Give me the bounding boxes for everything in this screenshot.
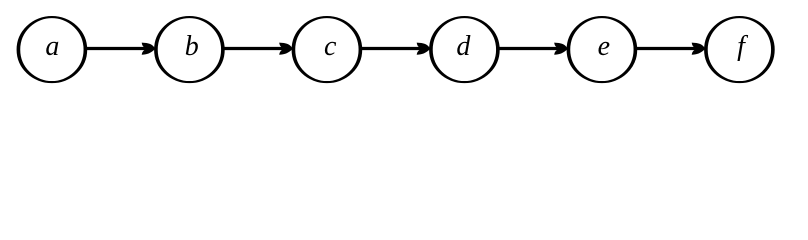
edge b to c (wire) (222, 43, 293, 55)
edge d to e (wire) (497, 43, 568, 55)
arrowhead c to d (417, 43, 431, 55)
node b (156, 17, 223, 82)
svg-text:c: c (324, 31, 337, 62)
svg-text:e: e (598, 31, 610, 62)
node d (431, 17, 498, 82)
edge a to b (wire) (84, 43, 155, 55)
node e (568, 17, 635, 82)
arrowhead e to f (692, 43, 706, 55)
node a (18, 17, 85, 82)
svg-text:a: a (45, 31, 59, 62)
node f (706, 17, 773, 82)
arrowhead b to c (279, 43, 293, 55)
node c (293, 17, 360, 82)
edge c to d (wire) (359, 43, 430, 55)
arrowhead d to e (554, 43, 568, 55)
edge e to f (wire) (634, 43, 705, 55)
svg-text:f: f (737, 31, 748, 62)
svg-text:d: d (456, 31, 471, 62)
arrowhead a to b (142, 43, 156, 55)
svg-text:b: b (185, 31, 199, 62)
